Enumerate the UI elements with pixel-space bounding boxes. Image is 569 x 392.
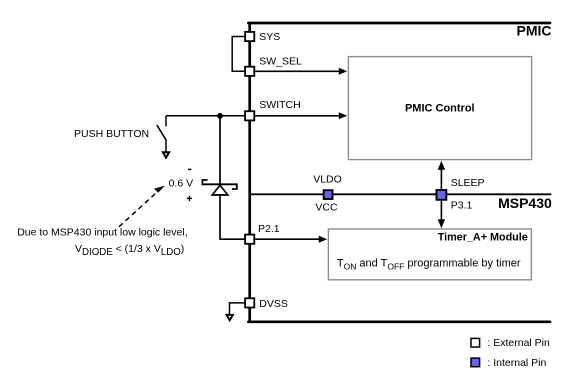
wire: SWITCH arrow to PMIC Control: [255, 115, 340, 117]
pin P3.1 internal: [437, 190, 447, 200]
svg-text:SLEEP: SLEEP: [451, 177, 485, 189]
svg-text:SWITCH: SWITCH: [259, 99, 300, 111]
wire: PMIC vertical spine: [248, 23, 251, 322]
Timer_A+ Module box U2: [328, 229, 531, 280]
wire: SW_SEL arrow to PMIC Control: [255, 70, 340, 72]
svg-text:Due to MSP430 input low logic: Due to MSP430 input low logic level,: [17, 226, 187, 238]
plus sign: [187, 197, 192, 199]
wire: zener to P2.1: [220, 195, 245, 239]
pin SYS: [245, 32, 254, 41]
zener diode D1: [202, 180, 236, 189]
svg-text:P2.1: P2.1: [258, 223, 280, 235]
svg-text:PMIC Control: PMIC Control: [405, 102, 475, 114]
MSP430 border line: [250, 193, 551, 195]
svg-text:MSP430: MSP430: [498, 195, 552, 211]
svg-text:TON and TOFF programmable by t: TON and TOFF programmable by timer: [337, 257, 521, 271]
legend internal pin: [471, 358, 480, 367]
pin SWITCH: [245, 111, 254, 120]
pin DVSS: [245, 298, 254, 307]
wire: junction down to zener: [219, 116, 221, 185]
svg-text:VCC: VCC: [315, 201, 338, 213]
svg-text:PMIC: PMIC: [517, 23, 552, 39]
svg-text:P3.1: P3.1: [451, 199, 473, 211]
PMIC Control box U1: [348, 57, 531, 160]
minus sign: [188, 168, 191, 170]
svg-text:DVSS: DVSS: [259, 298, 288, 310]
svg-text:: External Pin: : External Pin: [487, 337, 550, 349]
wire: SLEEP double arrow lower: [440, 200, 442, 221]
wire: SLEEP double arrow upper: [440, 168, 442, 190]
svg-text:: Internal Pin: : Internal Pin: [487, 357, 546, 369]
wire: P2.1 arrow to Timer module: [255, 238, 320, 240]
PMIC bottom border: [248, 320, 550, 323]
pin VLDO/VCC internal: [324, 190, 333, 199]
dashed annotation arrow: [119, 193, 156, 227]
svg-text:0.6 V: 0.6 V: [169, 178, 194, 190]
node junction dot: [217, 113, 223, 119]
PMIC top border: [248, 22, 550, 25]
wire: SYS to SW_SEL loop: [232, 37, 244, 72]
pin SW_SEL: [245, 67, 254, 76]
svg-text:PUSH BUTTON: PUSH BUTTON: [74, 128, 149, 140]
ground arrow at DVSS: [230, 303, 246, 314]
legend external pin: [471, 338, 480, 347]
pin P2.1: [245, 235, 254, 244]
svg-text:Timer_A+ Module: Timer_A+ Module: [438, 231, 528, 243]
svg-text:SW_SEL: SW_SEL: [259, 55, 302, 67]
wire: push button to SWITCH pin: [166, 115, 245, 117]
svg-text:SYS: SYS: [259, 31, 280, 43]
svg-text:VLDO: VLDO: [313, 173, 342, 185]
